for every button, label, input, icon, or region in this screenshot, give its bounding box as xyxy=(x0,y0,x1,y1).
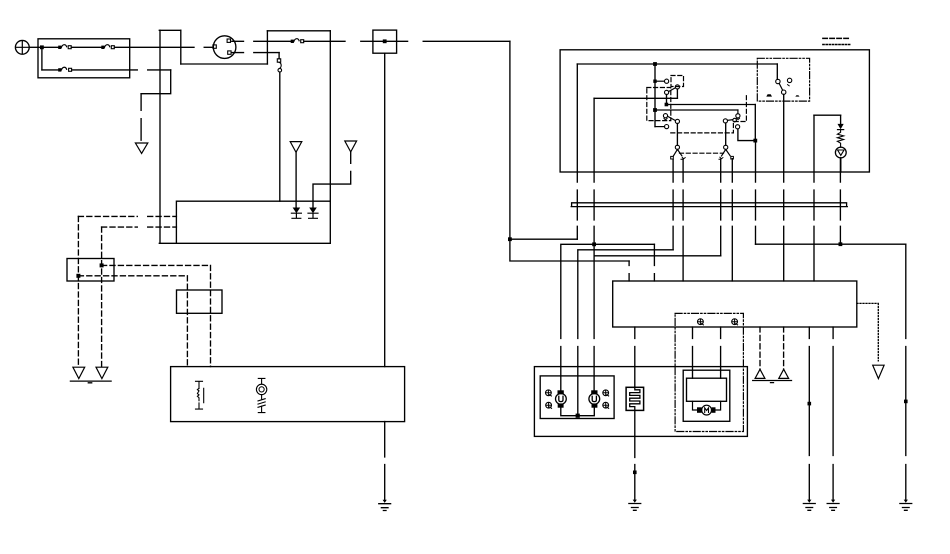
wire bus lead IND xyxy=(813,115,815,281)
wire bus lead ST xyxy=(783,94,785,281)
wire fuel unit lead left xyxy=(692,327,694,378)
wire bus lead P4 xyxy=(731,159,733,281)
headlamp inner box xyxy=(540,376,614,419)
node junction box tap xyxy=(383,39,387,43)
fuse relay bracket box xyxy=(613,281,857,327)
fuel pump motor M xyxy=(697,405,716,415)
kill switch contact b xyxy=(675,85,679,89)
wire flasher lead xyxy=(634,327,636,387)
handlebar switch housing box xyxy=(560,50,869,172)
wire lead P3 across xyxy=(594,255,720,257)
mechanical link dashed xyxy=(680,152,724,154)
wire contact feed down xyxy=(666,95,668,105)
fuse F2 xyxy=(101,45,114,49)
wire through junction box xyxy=(373,40,408,42)
screw terminal S4 xyxy=(603,402,609,408)
screw terminal S1 xyxy=(546,390,552,396)
wire ignition switch output upper xyxy=(233,40,346,42)
wire battery to fuse box xyxy=(30,46,38,48)
node headlamp split xyxy=(592,242,596,246)
turnsignal fork left xyxy=(671,149,686,159)
starter switch housing dash-dot box xyxy=(757,58,809,101)
wire bus lead P2 xyxy=(682,159,684,281)
spark plug P2 with resistor xyxy=(256,378,266,412)
node dimmer output junction xyxy=(753,139,757,143)
wire loop top left xyxy=(159,29,181,31)
ground G4 xyxy=(827,500,839,511)
wire horn lead across right xyxy=(756,243,906,245)
wire switch feed horizontal xyxy=(577,63,777,65)
wire fuse box bottom row xyxy=(42,69,137,71)
starter contact b xyxy=(787,78,791,86)
starter blade xyxy=(779,84,786,95)
screw terminal S2 xyxy=(546,402,552,408)
wire dashed relay drop right xyxy=(101,227,103,366)
diode D1 xyxy=(291,208,301,219)
wire bus to main feed xyxy=(510,238,577,240)
wire ground lead A xyxy=(808,327,810,500)
wire bus lead HORN xyxy=(755,141,757,245)
legend dotted sample xyxy=(823,44,851,46)
wire dimmer output xyxy=(738,129,755,141)
wire breaker to CDI box xyxy=(279,72,281,201)
screw terminal S3 xyxy=(603,390,609,396)
bulb B2 xyxy=(589,390,600,407)
legend dashed sample xyxy=(823,37,851,39)
dimmer contact e xyxy=(736,114,740,120)
starter position mark push xyxy=(795,95,799,96)
CDI unit box xyxy=(159,201,330,243)
fuse F3 xyxy=(58,67,71,71)
junction box xyxy=(373,30,397,53)
dimmer blade xyxy=(723,118,736,123)
wire ignition switch output lower xyxy=(233,52,279,54)
wire fuse box branch down xyxy=(41,47,43,70)
node horn lead junction xyxy=(839,242,843,246)
connector bullet flasher ground xyxy=(633,471,637,475)
headlamp case box xyxy=(534,367,747,437)
fuse F4 xyxy=(291,39,304,43)
wire dashed CDI to relay upper xyxy=(78,215,176,217)
connector bullet right xyxy=(904,400,908,404)
node bulb common junction xyxy=(576,414,580,418)
node relay contact upper xyxy=(100,263,104,267)
wire position lead across xyxy=(578,250,673,416)
wire kill switch pole drop xyxy=(676,89,678,98)
indicator lamp L1 xyxy=(835,147,846,158)
connector bus double line xyxy=(571,203,847,207)
wire dashedlike lead to fusebox pin xyxy=(653,244,655,281)
switch housing dashed outline A xyxy=(647,88,671,121)
node kill switch tap 1 xyxy=(653,80,656,83)
wire to ignition switch xyxy=(204,46,213,48)
wire fuel unit lead right xyxy=(720,327,722,378)
wire dimmer feed corner drop xyxy=(754,105,756,141)
frame connection triangles xyxy=(753,369,792,382)
wire loop rise xyxy=(266,31,268,64)
wire indicator lamp bottom xyxy=(840,158,842,172)
wire dashed accessory lead 2 xyxy=(783,327,785,370)
dimmer contact f xyxy=(736,110,740,129)
diode D3 xyxy=(838,115,844,129)
kill switch contact a xyxy=(655,79,669,83)
turnsignal pivot left xyxy=(675,145,679,149)
starter contact a xyxy=(776,79,780,83)
wire main feed drop xyxy=(510,239,629,261)
wire dashed CDI to relay lower xyxy=(102,226,177,228)
bulb B1 xyxy=(556,390,567,407)
ignition switch connector xyxy=(213,36,236,59)
wire harness loop left vertical xyxy=(159,30,161,243)
wire right ground lead long xyxy=(905,244,907,499)
fuel pump dash-dot box xyxy=(675,313,743,431)
ground arrow pair left xyxy=(70,367,111,383)
wire dashed relay to sensor left xyxy=(78,276,187,367)
circuit breaker xyxy=(277,53,281,72)
wire bus lead P1 xyxy=(672,160,674,250)
arrow destination lead B xyxy=(345,141,357,152)
wire bus lead P3 xyxy=(720,160,722,256)
wire bus lead HL xyxy=(593,98,595,226)
node switch feed junction xyxy=(653,62,657,66)
wire dimmer feed upper xyxy=(666,104,755,106)
switch housing dashed outline C xyxy=(671,95,747,133)
wire main feed pin with break xyxy=(628,261,630,281)
wire bus lead BAT xyxy=(576,64,578,239)
wire fuse box top row xyxy=(38,46,194,48)
screw terminal S5 xyxy=(698,319,704,325)
fuel pump motor leads xyxy=(693,401,721,410)
wire loop drop xyxy=(180,30,182,64)
fuse F1 xyxy=(58,45,71,49)
wire arrow A to diode xyxy=(295,152,297,207)
ground G5 xyxy=(900,500,912,511)
kill switch blade xyxy=(665,88,676,95)
turnsignal contact d xyxy=(663,114,667,120)
wire kill switch output xyxy=(594,97,677,99)
wire dimmer feed lower xyxy=(655,109,738,111)
node kill switch tap 2 xyxy=(653,108,657,112)
wire dashed relay to sensor right xyxy=(102,265,211,366)
wire dimmer pole drop xyxy=(725,123,727,145)
diode D2 xyxy=(308,208,318,219)
ground G3 xyxy=(803,500,815,511)
node dimmer feed junction xyxy=(665,103,669,107)
fuel pump outer case xyxy=(683,370,730,421)
wire loop horizontal mid xyxy=(181,63,268,65)
wire kill switch common vertical xyxy=(654,64,656,127)
turnsignal pivot right xyxy=(724,145,728,149)
wire ground lead B xyxy=(832,327,834,500)
spark plug P1 xyxy=(196,381,204,409)
wire headlamp lead lower xyxy=(593,226,595,390)
wire segment to junction box xyxy=(361,40,373,42)
wire long feed down-left xyxy=(509,41,511,239)
ground G2 xyxy=(629,500,641,511)
flasher resistor unit xyxy=(626,387,644,410)
resistor R1 xyxy=(837,130,843,148)
starter position mark free xyxy=(766,94,772,96)
wire junction box to right harness xyxy=(423,40,510,42)
wire bus lead LP xyxy=(839,158,841,244)
wire drop to ground lead xyxy=(141,70,171,94)
node relay contact lower xyxy=(76,274,80,278)
battery positive terminal xyxy=(15,40,29,54)
arrow destination lead A xyxy=(290,142,302,153)
ground G1 xyxy=(379,500,391,511)
connector bullet ground lead A xyxy=(808,402,812,406)
turnsignal blade left xyxy=(668,116,680,123)
dotted lead from bracket xyxy=(857,303,878,360)
wire dashed relay drop left xyxy=(77,216,79,366)
wire starter feed drop xyxy=(776,64,778,79)
node main feed junction xyxy=(508,237,512,241)
wire loop right vertical xyxy=(329,31,331,244)
fuse box xyxy=(38,39,130,78)
ignition coil box xyxy=(171,367,405,422)
fuel pump body xyxy=(687,378,727,401)
sensor box xyxy=(177,290,223,313)
wire bulb commons xyxy=(561,408,595,416)
wire dashed ground lead xyxy=(140,94,142,141)
arrow destination dotted lead xyxy=(873,365,884,378)
relay box xyxy=(67,259,114,282)
wire turnsignal pole left xyxy=(676,124,678,146)
wire dashed accessory lead 1 xyxy=(759,327,761,370)
turnsignal contact c xyxy=(655,125,669,129)
ground arrow destination xyxy=(135,143,147,153)
screw terminal S6 xyxy=(732,319,738,325)
turnsignal fork right xyxy=(719,149,733,159)
wire lower feed to breaker drop xyxy=(148,69,171,71)
wire headlamp split left xyxy=(561,244,655,390)
wire loop top right xyxy=(267,30,330,32)
wire arrow B with break xyxy=(313,152,351,208)
switch housing dashed outline B xyxy=(671,76,684,87)
wire indicator branch top xyxy=(814,114,841,116)
wire flasher to ground xyxy=(634,410,636,499)
wire centre feed down xyxy=(384,53,386,500)
node battery feed junction xyxy=(40,45,44,49)
